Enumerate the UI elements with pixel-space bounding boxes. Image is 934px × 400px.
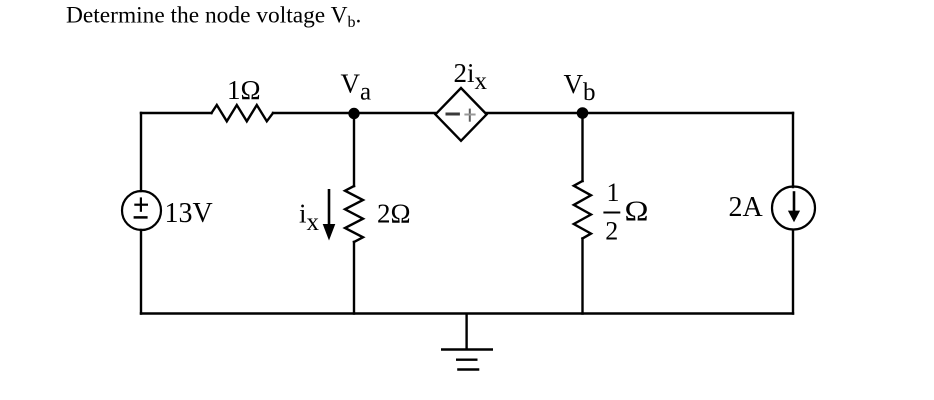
- svg-text:Va: Va: [341, 69, 372, 106]
- svg-text:Vb: Vb: [564, 69, 596, 106]
- svg-text:Determine the node voltage Vb.: Determine the node voltage Vb.: [66, 3, 361, 32]
- wire bottom rail: [141, 312, 793, 314]
- node B (Vb) dot: [577, 107, 589, 119]
- svg-text:Ω: Ω: [625, 196, 649, 228]
- wire right side top down to current source: [792, 113, 794, 187]
- svg-text:2: 2: [605, 217, 618, 246]
- resistor R3 half-ohm zigzag: [574, 181, 591, 239]
- dependent source E1 2ix diamond: [435, 88, 486, 141]
- label R3 value 1/2 ohm: [603, 178, 648, 245]
- resistor R2 2ohm zigzag: [345, 186, 363, 242]
- svg-text:1: 1: [607, 178, 620, 207]
- node A (Va) dot: [348, 108, 359, 119]
- voltage source V1 13V circle: [122, 191, 161, 230]
- wire R2 to bottom rail: [353, 242, 355, 314]
- wire dependent source to node B and top-right corner: [486, 112, 793, 114]
- svg-text:13V: 13V: [165, 198, 213, 229]
- svg-text:ix: ix: [299, 199, 320, 237]
- wire left side top: [140, 113, 142, 191]
- current arrow ix: [323, 189, 336, 241]
- resistor R1 1ohm zigzag: [212, 105, 274, 121]
- wire node B down to R3: [581, 113, 583, 181]
- wire R1 to node A: [273, 112, 435, 114]
- wire node A down to R2: [353, 113, 355, 186]
- wire current source to bottom-right corner: [792, 230, 794, 314]
- svg-text:1Ω: 1Ω: [227, 75, 261, 105]
- svg-text:2Ω: 2Ω: [377, 199, 411, 229]
- wire R3 to bottom rail: [581, 239, 583, 314]
- wire top-left segment: [141, 112, 212, 114]
- ground: [441, 314, 493, 370]
- current source arrow: [788, 191, 800, 222]
- wire left side bottom: [140, 230, 142, 314]
- svg-text:2A: 2A: [729, 192, 764, 223]
- current source I1 2A circle: [772, 187, 815, 230]
